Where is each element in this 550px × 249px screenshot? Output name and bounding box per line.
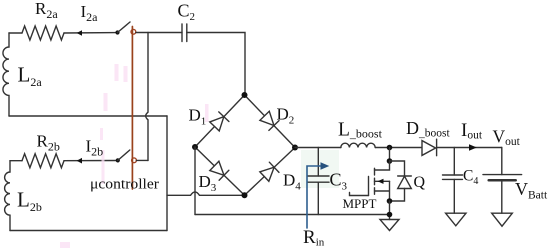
- body diode lead bottom: [390, 189, 405, 202]
- node left: [192, 144, 198, 150]
- diode D3: [209, 161, 228, 180]
- bridge edge left-bottom: [195, 147, 245, 195]
- diode D1: [209, 112, 228, 131]
- node source junction: [387, 198, 393, 204]
- resistor R2a: [22, 26, 64, 40]
- capacitor C4 branch bottom: [453, 179, 455, 213]
- wire resistor to switch: [64, 32, 118, 34]
- body diode triangle: [398, 176, 412, 188]
- wire C2 to bridge top: [187, 33, 245, 96]
- current arrow I_out: [469, 144, 477, 151]
- wire boost to node: [375, 147, 422, 149]
- capacitor C4: [443, 175, 463, 179]
- svg-text:C4: C4: [463, 168, 478, 188]
- diode D_boost: [422, 141, 436, 156]
- wire return to bridge bottom with hop: [167, 192, 245, 195]
- control line (red): [131, 27, 133, 190]
- node bottom: [242, 192, 248, 198]
- capacitor C3 branch top: [317, 148, 319, 177]
- current arrow I2b: [77, 158, 82, 164]
- node top: [242, 92, 248, 98]
- ground (C4): [446, 213, 466, 226]
- wire switch-b riser with hop: [146, 33, 148, 161]
- wire loop-a bottom: [9, 115, 167, 117]
- wire negative leg: [194, 147, 196, 215]
- wire resistor to switch b: [64, 160, 117, 162]
- wire loop-b top: [10, 160, 22, 162]
- svg-text:L_boost: L_boost: [338, 120, 383, 141]
- switch Sa contact circle: [131, 29, 136, 34]
- switch Sb pivot dot: [116, 158, 120, 162]
- svg-text:Iout: Iout: [461, 120, 483, 142]
- svg-text:Rin: Rin: [303, 227, 325, 249]
- wire node to drain junction: [389, 148, 391, 162]
- Rin measurement arrow (blue): [307, 166, 321, 228]
- artifact tint near C3: [301, 150, 339, 188]
- diode D_boost bar: [436, 139, 438, 156]
- capacitor C4 branch top: [453, 148, 455, 176]
- switch Sa blade: [118, 22, 131, 33]
- svg-text:C2: C2: [178, 1, 196, 24]
- mosfet Q body stub: [375, 180, 390, 182]
- inductor L2b coil: [5, 161, 10, 231]
- node drain-top: [387, 145, 393, 151]
- svg-text:D4: D4: [283, 171, 301, 193]
- svg-text:L2a: L2a: [18, 63, 43, 90]
- svg-text:R2a: R2a: [35, 0, 58, 21]
- mosfet Q body arrow: [378, 179, 384, 184]
- svg-text:D2: D2: [277, 105, 295, 127]
- pink artifact smudges: [60, 64, 209, 248]
- wire switch-b to riser: [136, 159, 148, 161]
- diode D4: [260, 162, 279, 181]
- svg-text:Q: Q: [414, 174, 426, 191]
- wire Dboost to Vout: [437, 147, 502, 149]
- svg-text:C3: C3: [330, 170, 348, 193]
- body diode lead top: [390, 161, 405, 176]
- node rail end: [387, 212, 393, 218]
- capacitor C3: [308, 176, 330, 182]
- wire bottom rail: [195, 214, 390, 216]
- bridge edge bottom-right: [245, 148, 296, 196]
- resistor R2b: [22, 154, 64, 168]
- wire loop-a top: [9, 32, 22, 34]
- wire loop-b bottom: [10, 230, 167, 232]
- svg-text:D3: D3: [199, 172, 217, 194]
- diode D2: [260, 111, 279, 130]
- wire secondary return riser: [166, 116, 168, 231]
- wire Vout corner down: [501, 148, 503, 175]
- battery lead to ground: [501, 180, 503, 213]
- ground (battery): [492, 213, 513, 226]
- current arrow I2a: [77, 30, 82, 36]
- ground (mosfet): [380, 220, 399, 231]
- svg-text:μcontroller: μcontroller: [90, 177, 159, 193]
- body diode cathode bar: [398, 175, 412, 177]
- node drain junction: [387, 158, 393, 164]
- wire bridge to boost: [295, 147, 341, 149]
- capacitor C3 branch bottom: [317, 182, 319, 214]
- svg-text:Vout: Vout: [493, 127, 521, 148]
- svg-text:D_boost: D_boost: [406, 118, 450, 140]
- bridge edge left-top: [195, 95, 245, 147]
- capacitor C2: [182, 24, 187, 42]
- svg-text:D1: D1: [189, 106, 207, 128]
- svg-text:MPPT: MPPT: [343, 196, 377, 211]
- mosfet Q source lead: [375, 181, 390, 201]
- switch Sb blade: [118, 150, 130, 160]
- svg-text:R2b: R2b: [37, 132, 60, 154]
- battery V_Batt plus plate: [483, 174, 522, 176]
- battery V_Batt minus plate: [489, 179, 516, 182]
- svg-text:VBatt: VBatt: [515, 179, 548, 202]
- switch Sa pivot dot: [115, 30, 119, 34]
- mosfet Q gate: [368, 177, 370, 196]
- svg-text:L2b: L2b: [17, 188, 42, 215]
- wire source to ground: [389, 201, 391, 220]
- bridge edge top-right: [245, 95, 296, 148]
- node right: [292, 145, 298, 151]
- mosfet Q gate lead: [350, 193, 369, 196]
- switch Sb contact circle: [132, 158, 137, 163]
- mosfet Q channel dashes: [374, 168, 376, 194]
- mosfet Q drain lead: [375, 161, 390, 170]
- inductor L2a coil: [3, 33, 9, 116]
- wire switch to C2: [136, 32, 182, 34]
- svg-text:I2a: I2a: [81, 2, 99, 24]
- inductor L_boost: [341, 143, 375, 147]
